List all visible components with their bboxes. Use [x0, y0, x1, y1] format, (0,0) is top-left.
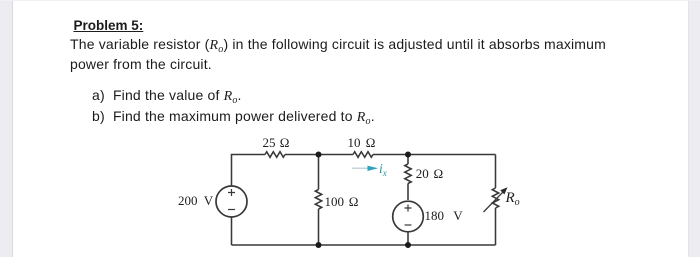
label 20 ohm — [416, 166, 443, 182]
source 200V circle — [216, 186, 247, 217]
label ix — [379, 161, 387, 177]
wire right bottom — [495, 208, 497, 245]
source 200V plus — [228, 189, 235, 196]
wire between 20ohm and 180V — [407, 184, 409, 201]
source 180V plus — [405, 205, 412, 212]
wire 180V to bottom — [407, 232, 409, 246]
label 100 ohm — [325, 194, 359, 210]
source 180V circle — [393, 201, 424, 232]
wire top-left segment — [232, 155, 266, 187]
wire top middle segment — [285, 154, 353, 156]
label 25 ohm — [263, 135, 290, 151]
wire middle branch bottom — [318, 209, 320, 245]
label 200 V — [178, 193, 213, 209]
resistor R 25ohm — [265, 152, 285, 158]
wire 20ohm branch top — [407, 155, 409, 165]
label 180 V — [425, 208, 463, 224]
wire left bottom — [231, 217, 233, 245]
label 10 ohm — [348, 135, 376, 151]
resistor 20ohm zigzag — [405, 164, 411, 184]
source 180V minus — [405, 224, 412, 226]
current ix arrowhead — [368, 166, 379, 171]
source 200V minus — [228, 209, 235, 211]
label Ro — [506, 190, 520, 207]
resistor Ro zigzag — [492, 188, 498, 208]
node top A — [316, 152, 322, 158]
resistor 10ohm — [353, 152, 373, 158]
current ix arrow shaft — [352, 167, 369, 169]
node bottom B — [405, 242, 411, 248]
wire middle branch top — [318, 155, 320, 190]
node bottom A — [316, 242, 322, 248]
wire right top — [495, 155, 497, 189]
Ro arrow — [484, 192, 503, 212]
wire bottom — [232, 244, 496, 246]
resistor 100ohm zigzag — [315, 190, 321, 210]
node top B — [405, 152, 411, 158]
wire top right segment — [373, 154, 496, 156]
